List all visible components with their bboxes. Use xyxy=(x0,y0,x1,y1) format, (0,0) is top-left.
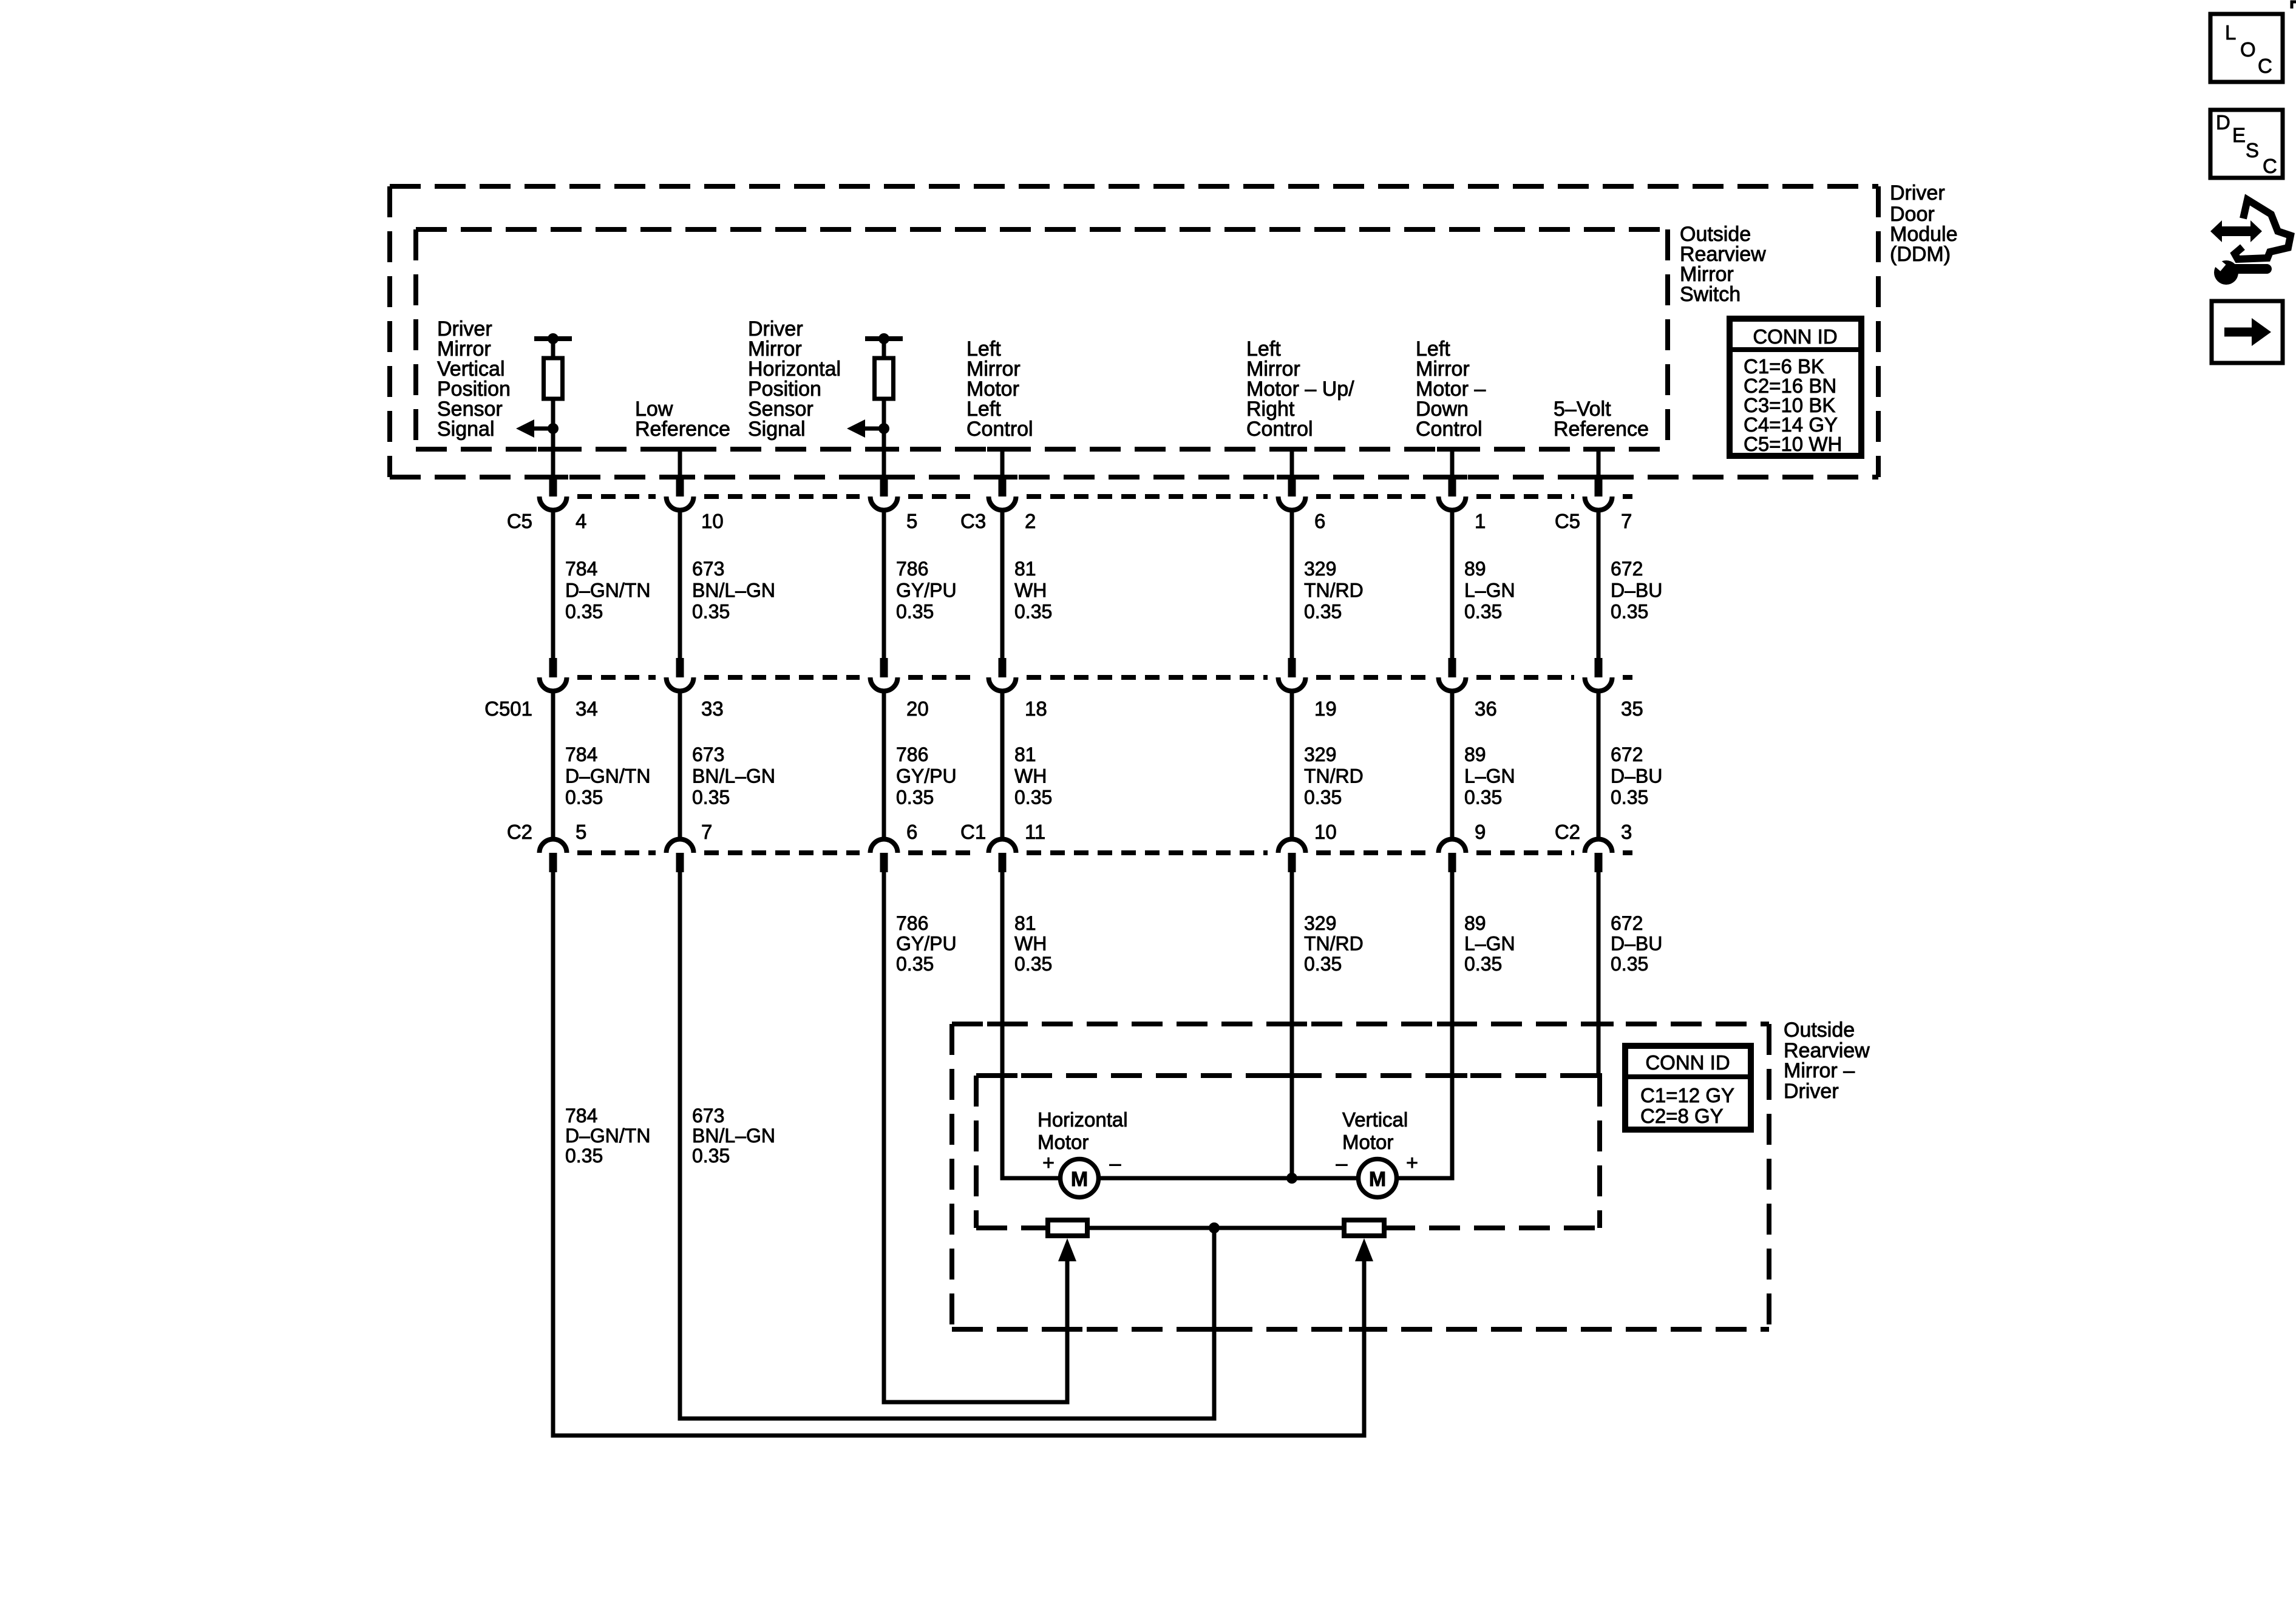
svg-text:D: D xyxy=(2216,111,2230,134)
connector pin-socket col5 C5/C3 row xyxy=(1288,477,1296,497)
connector pin-socket col7 C5/C3 row xyxy=(1595,477,1603,497)
svg-text:34: 34 xyxy=(576,697,598,720)
svg-text:M: M xyxy=(1369,1168,1386,1191)
CONN ID table (switch connectors) xyxy=(1730,319,1861,456)
svg-text:C1=12 GY: C1=12 GY xyxy=(1640,1084,1734,1107)
svg-text:TN/RD: TN/RD xyxy=(1304,579,1364,601)
svg-text:89: 89 xyxy=(1464,744,1486,765)
svg-text:35: 35 xyxy=(1621,697,1643,720)
connector pin-socket col7 C501 row xyxy=(1595,658,1603,677)
svg-text:Control: Control xyxy=(1416,418,1483,441)
svg-text:786: 786 xyxy=(896,558,928,580)
svg-text:89: 89 xyxy=(1464,558,1486,580)
svg-text:Motor: Motor xyxy=(1038,1131,1089,1153)
svg-text:0.35: 0.35 xyxy=(1464,787,1502,808)
wiper arrow of R1 driver mirror vertical position sensor xyxy=(534,427,553,431)
svg-text:WH: WH xyxy=(1014,933,1047,955)
svg-text:784: 784 xyxy=(565,744,597,765)
connector pin-socket col2 C2/C1 row xyxy=(667,839,694,853)
wire col6 to vertical motor + xyxy=(1399,872,1452,1178)
svg-text:673: 673 xyxy=(692,1105,724,1127)
resistor R2 driver mirror horizontal position sensor xyxy=(865,336,903,341)
svg-text:D–BU: D–BU xyxy=(1611,579,1662,601)
svg-text:0.35: 0.35 xyxy=(896,953,934,975)
motor M2 vertical xyxy=(1359,1159,1397,1198)
svg-text:+: + xyxy=(1406,1151,1418,1175)
connector row C501 dashed line xyxy=(577,675,656,680)
svg-text:Vertical: Vertical xyxy=(1342,1108,1408,1131)
svg-text:329: 329 xyxy=(1304,558,1336,580)
svg-text:CONN ID: CONN ID xyxy=(1753,325,1837,348)
svg-text:81: 81 xyxy=(1014,744,1036,765)
svg-text:O: O xyxy=(2240,38,2256,61)
svg-text:Switch: Switch xyxy=(1680,283,1741,306)
svg-text:–: – xyxy=(1336,1152,1348,1175)
svg-text:C501: C501 xyxy=(484,697,532,720)
feed arrow into horizontal motor block xyxy=(1058,1238,1076,1261)
resistor R1 driver mirror vertical position sensor xyxy=(534,336,572,341)
svg-text:D–GN/TN: D–GN/TN xyxy=(565,1125,650,1147)
svg-text:CONN ID: CONN ID xyxy=(1645,1051,1730,1074)
svg-text:Driver: Driver xyxy=(1890,181,1945,205)
connector pin-socket col1 C5/C3 row xyxy=(549,477,557,497)
connector pin-socket col2 C501 row xyxy=(676,658,684,677)
svg-text:0.35: 0.35 xyxy=(1611,787,1648,808)
svg-text:Signal: Signal xyxy=(437,418,495,441)
svg-text:0.35: 0.35 xyxy=(692,601,730,623)
next-page arrow icon box xyxy=(2212,301,2283,363)
DESC icon box xyxy=(2210,110,2283,178)
svg-text:11: 11 xyxy=(1025,821,1045,843)
mirror motor assembly inner dashed box xyxy=(976,1073,1600,1078)
svg-text:5: 5 xyxy=(906,510,917,532)
wire col4 to horizontal motor + xyxy=(1002,872,1058,1178)
svg-text:L–GN: L–GN xyxy=(1464,933,1515,955)
connector pin-socket col1 C501 row xyxy=(549,658,557,677)
wire col2 673 BN/L-GN xyxy=(678,449,682,477)
svg-text:BN/L–GN: BN/L–GN xyxy=(692,1125,775,1147)
svg-text:GY/PU: GY/PU xyxy=(896,765,957,787)
connector pin-socket col5 C2/C1 row xyxy=(1279,839,1306,853)
svg-text:GY/PU: GY/PU xyxy=(896,933,957,955)
svg-text:329: 329 xyxy=(1304,912,1336,934)
connector pin-socket col4 C501 row xyxy=(999,658,1007,677)
Driver Door Module (DDM) dashed box xyxy=(390,184,1878,189)
CONN ID table (mirror connectors) xyxy=(1625,1046,1751,1130)
svg-text:6: 6 xyxy=(906,821,917,843)
junction col5 wire to motor link xyxy=(1286,1173,1297,1184)
svg-text:WH: WH xyxy=(1014,765,1047,787)
svg-text:Mirror –: Mirror – xyxy=(1784,1059,1855,1082)
svg-text:89: 89 xyxy=(1464,912,1486,934)
connector pin-socket col4 C2/C1 row xyxy=(989,839,1016,853)
svg-text:786: 786 xyxy=(896,744,928,765)
svg-text:C2: C2 xyxy=(507,821,532,843)
wire crossing stubs on box edges xyxy=(538,447,568,452)
wire between motors (common) xyxy=(1101,1176,1356,1181)
svg-text:C5: C5 xyxy=(1555,510,1580,532)
page corner tick xyxy=(2292,2,2296,8)
svg-text:0.35: 0.35 xyxy=(896,601,934,623)
svg-text:329: 329 xyxy=(1304,744,1336,765)
wire col3 786 GY/PU xyxy=(882,512,886,658)
connector pin-socket col1 C2/C1 row xyxy=(540,839,567,853)
svg-text:WH: WH xyxy=(1014,579,1047,601)
svg-text:0.35: 0.35 xyxy=(1014,953,1052,975)
svg-text:0.35: 0.35 xyxy=(565,1145,603,1167)
svg-text:D–BU: D–BU xyxy=(1611,765,1662,787)
svg-text:786: 786 xyxy=(896,912,928,934)
svg-text:0.35: 0.35 xyxy=(1611,953,1648,975)
svg-text:D–GN/TN: D–GN/TN xyxy=(565,579,650,601)
svg-text:4: 4 xyxy=(576,510,586,532)
connector pin-socket col7 C2/C1 row xyxy=(1585,839,1612,853)
connector pin-socket col5 C501 row xyxy=(1288,658,1296,677)
motor return wire between connector blocks xyxy=(1087,1226,1344,1230)
connector pin-socket col3 C501 row xyxy=(880,658,888,677)
svg-text:C2: C2 xyxy=(1555,821,1580,843)
svg-text:0.35: 0.35 xyxy=(692,1145,730,1167)
svg-text:Control: Control xyxy=(966,418,1033,441)
svg-text:33: 33 xyxy=(701,697,724,720)
svg-text:0.35: 0.35 xyxy=(565,787,603,808)
svg-text:10: 10 xyxy=(701,510,724,532)
svg-text:673: 673 xyxy=(692,744,724,765)
wire col2 bottom run to motor common junction xyxy=(680,872,1214,1419)
connector block under vertical motor xyxy=(1344,1220,1384,1236)
wire col7 672 D-BU 5-volt reference xyxy=(1597,449,1601,477)
svg-text:+: + xyxy=(1042,1151,1055,1175)
svg-text:C5=10 WH: C5=10 WH xyxy=(1744,433,1842,455)
svg-text:10: 10 xyxy=(1314,821,1337,843)
svg-text:Signal: Signal xyxy=(748,418,806,441)
svg-text:672: 672 xyxy=(1611,558,1643,580)
wire col1 bottom run to vertical-motor feed arrow xyxy=(553,872,1364,1436)
svg-text:Reference: Reference xyxy=(635,418,730,441)
svg-text:GY/PU: GY/PU xyxy=(896,579,957,601)
svg-text:BN/L–GN: BN/L–GN xyxy=(692,579,775,601)
svg-text:D–BU: D–BU xyxy=(1611,933,1662,955)
svg-text:18: 18 xyxy=(1025,697,1047,720)
connector pin-socket col6 C2/C1 row xyxy=(1439,839,1466,853)
svg-text:E: E xyxy=(2232,124,2246,146)
mirror adjustment icon xyxy=(2209,200,2291,285)
wire crossing stubs on bottom box edges xyxy=(987,1022,1017,1026)
connector pin-socket col6 C501 row xyxy=(1449,658,1456,677)
svg-text:19: 19 xyxy=(1314,697,1337,720)
svg-text:5: 5 xyxy=(576,821,586,843)
svg-text:L–GN: L–GN xyxy=(1464,765,1515,787)
svg-text:C1: C1 xyxy=(960,821,986,843)
connector pin-socket col2 C5/C3 row xyxy=(676,477,684,497)
svg-text:81: 81 xyxy=(1014,558,1036,580)
svg-text:0.35: 0.35 xyxy=(1464,601,1502,623)
svg-text:6: 6 xyxy=(1314,510,1325,532)
svg-text:0.35: 0.35 xyxy=(1014,601,1052,623)
svg-text:Outside: Outside xyxy=(1784,1019,1855,1042)
svg-text:Control: Control xyxy=(1246,418,1313,441)
svg-text:672: 672 xyxy=(1611,744,1643,765)
svg-text:0.35: 0.35 xyxy=(1464,953,1502,975)
connector row C2/C1/C2 dashed line xyxy=(577,850,656,855)
svg-text:20: 20 xyxy=(906,697,929,720)
svg-text:0.35: 0.35 xyxy=(1014,787,1052,808)
Outside Rearview Mirror - Driver dashed box xyxy=(952,1022,1769,1026)
svg-text:TN/RD: TN/RD xyxy=(1304,933,1364,955)
connector row C5/C3/C5 dashed line xyxy=(577,494,656,499)
connector pin-socket col4 C5/C3 row xyxy=(999,477,1007,497)
svg-text:L–GN: L–GN xyxy=(1464,579,1515,601)
svg-text:0.35: 0.35 xyxy=(1304,953,1342,975)
svg-text:Reference: Reference xyxy=(1554,418,1649,441)
svg-text:673: 673 xyxy=(692,558,724,580)
svg-text:0.35: 0.35 xyxy=(1611,601,1648,623)
motor M1 horizontal xyxy=(1061,1159,1099,1198)
svg-text:C5: C5 xyxy=(507,510,532,532)
wire col6 89 L-GN xyxy=(1450,449,1455,477)
svg-text:Driver: Driver xyxy=(1784,1080,1839,1103)
svg-text:0.35: 0.35 xyxy=(565,601,603,623)
svg-text:C: C xyxy=(2263,155,2277,177)
svg-text:S: S xyxy=(2246,139,2259,161)
svg-text:C3: C3 xyxy=(960,510,986,532)
feed arrow into vertical motor block xyxy=(1355,1238,1373,1261)
svg-text:784: 784 xyxy=(565,558,597,580)
svg-text:L: L xyxy=(2225,21,2236,44)
svg-text:BN/L–GN: BN/L–GN xyxy=(692,765,775,787)
connector block under horizontal motor xyxy=(1048,1220,1087,1236)
svg-text:M: M xyxy=(1071,1168,1088,1191)
svg-text:D–GN/TN: D–GN/TN xyxy=(565,765,650,787)
svg-text:C: C xyxy=(2258,55,2272,77)
svg-text:–: – xyxy=(1110,1152,1121,1175)
svg-text:81: 81 xyxy=(1014,912,1036,934)
svg-text:0.35: 0.35 xyxy=(692,787,730,808)
svg-text:Horizontal: Horizontal xyxy=(1038,1108,1128,1131)
connector pin-socket col3 C5/C3 row xyxy=(880,477,888,497)
connector pin-socket col6 C5/C3 row xyxy=(1449,477,1456,497)
svg-text:Motor: Motor xyxy=(1342,1131,1393,1153)
svg-text:672: 672 xyxy=(1611,912,1643,934)
junction col2 wire to motor return xyxy=(1209,1222,1220,1233)
svg-text:2: 2 xyxy=(1025,510,1036,532)
svg-text:3: 3 xyxy=(1621,821,1632,843)
connector pin-socket col3 C2/C1 row xyxy=(871,839,898,853)
svg-text:36: 36 xyxy=(1475,697,1497,720)
svg-text:0.35: 0.35 xyxy=(1304,601,1342,623)
wire col3 bottom run to horizontal-motor feed arrow xyxy=(884,872,1067,1402)
wire col5 329 TN/RD xyxy=(1290,449,1294,477)
Outside Rearview Mirror Switch dashed box xyxy=(416,227,1668,232)
wire col4 81 WH xyxy=(1000,449,1005,477)
svg-text:784: 784 xyxy=(565,1105,597,1127)
svg-text:1: 1 xyxy=(1475,510,1486,532)
svg-text:7: 7 xyxy=(1621,510,1632,532)
wiper arrow of R2 driver mirror horizontal position sensor xyxy=(865,427,884,431)
svg-text:9: 9 xyxy=(1475,821,1486,843)
svg-text:(DDM): (DDM) xyxy=(1890,243,1951,266)
svg-text:TN/RD: TN/RD xyxy=(1304,765,1364,787)
svg-text:0.35: 0.35 xyxy=(1304,787,1342,808)
LOC icon box xyxy=(2210,14,2283,82)
svg-text:7: 7 xyxy=(701,821,712,843)
svg-text:C2=8 GY: C2=8 GY xyxy=(1640,1105,1724,1127)
svg-text:0.35: 0.35 xyxy=(896,787,934,808)
wire col1 784 D-GN/TN xyxy=(551,512,555,658)
